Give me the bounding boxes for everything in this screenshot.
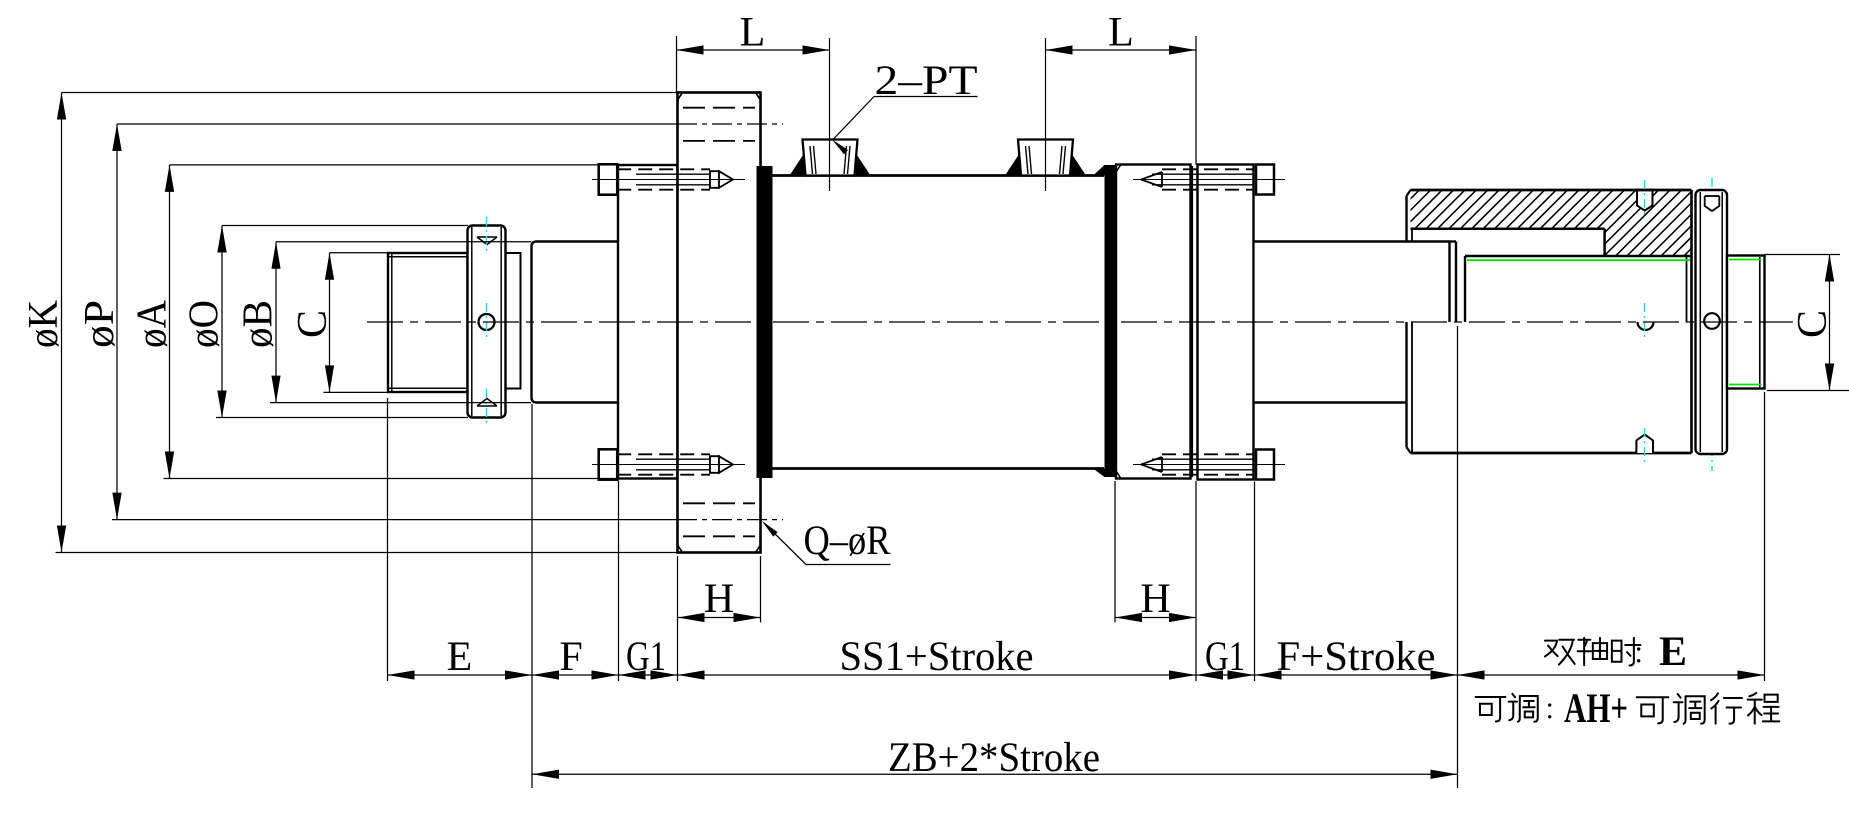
svg-text:øK: øK xyxy=(21,300,67,348)
svg-text:L: L xyxy=(1108,9,1134,55)
svg-text:F: F xyxy=(559,634,582,680)
svg-text:F+Stroke: F+Stroke xyxy=(1276,634,1435,680)
svg-text:AH+: AH+ xyxy=(1564,686,1628,732)
svg-text:øB: øB xyxy=(236,300,282,348)
svg-text:H: H xyxy=(704,576,734,622)
svg-text:øP: øP xyxy=(77,300,123,348)
svg-text:C: C xyxy=(1790,310,1836,338)
svg-text:C: C xyxy=(290,310,336,338)
svg-text:E: E xyxy=(447,634,473,680)
svg-text:2–PT: 2–PT xyxy=(874,58,977,104)
svg-text:ZB+2*Stroke: ZB+2*Stroke xyxy=(888,735,1100,781)
svg-text:G1: G1 xyxy=(1205,634,1245,680)
svg-text:E: E xyxy=(1659,629,1687,675)
svg-text:H: H xyxy=(1140,576,1170,622)
svg-text:øO: øO xyxy=(182,300,228,348)
svg-text:L: L xyxy=(740,9,766,55)
svg-text:Q–øR: Q–øR xyxy=(803,518,890,564)
svg-text:G1: G1 xyxy=(626,634,666,680)
svg-text:øA: øA xyxy=(130,299,176,348)
svg-text:SS1+Stroke: SS1+Stroke xyxy=(839,634,1033,680)
